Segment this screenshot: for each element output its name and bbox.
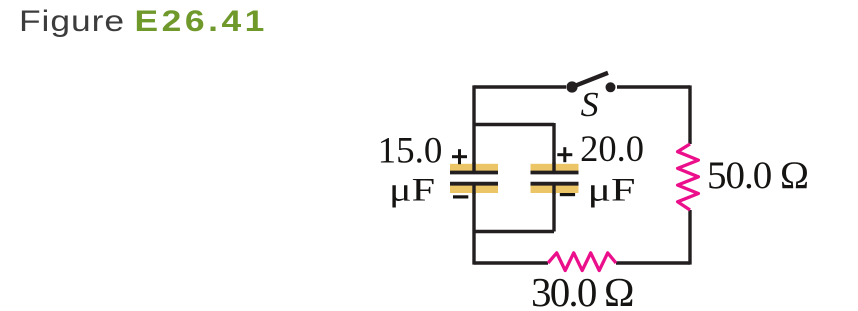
- wire: right side lower segment (outer loop): [688, 210, 691, 265]
- svg-text:30.0 Ω: 30.0 Ω: [531, 269, 633, 311]
- capacitor C1 plus sign: [452, 149, 467, 164]
- svg-text:S: S: [581, 85, 599, 124]
- capacitor C1 (15.0 uF) plates: [450, 163, 498, 195]
- wire: bottom side right segment (outer loop): [616, 261, 690, 264]
- capacitor C2 minus sign: [560, 193, 575, 196]
- label: 20.0 uF value of C2: [580, 128, 644, 209]
- resistor R1 (50.0 ohm) zigzag: [678, 144, 699, 210]
- svg-text:E26.41: E26.41: [135, 4, 268, 38]
- svg-text:Figure: Figure: [19, 4, 125, 38]
- wire: left side upper segment (outer loop, above C1): [472, 85, 475, 173]
- svg-text:μF: μF: [389, 173, 435, 209]
- wire: top side left segment (outer loop): [474, 85, 566, 88]
- switch S contact dot left: [566, 81, 577, 92]
- capacitor C1 minus sign: [453, 195, 468, 198]
- switch S contact dot right: [606, 82, 616, 92]
- svg-text:50.0 Ω: 50.0 Ω: [707, 154, 808, 197]
- svg-text:20.0: 20.0: [580, 128, 644, 169]
- capacitor C2 (20.0 uF) plates: [531, 163, 579, 195]
- switch S lever arm: [572, 73, 608, 87]
- wire: bottom side left segment (outer loop): [474, 261, 548, 264]
- wire: left side lower segment (outer loop, below C1): [472, 184, 475, 265]
- wire: inner branch top (parallel connection): [474, 123, 554, 126]
- wire: inner branch bottom (parallel connection): [474, 230, 554, 233]
- wire: right side upper segment (outer loop): [688, 85, 691, 144]
- label: 15.0 uF value of C1: [378, 131, 443, 209]
- svg-text:μF: μF: [588, 173, 636, 209]
- svg-text:15.0: 15.0: [378, 131, 443, 172]
- capacitor C2 plus sign: [557, 147, 572, 162]
- figure title "Figure E26.41": [19, 4, 268, 38]
- resistor R2 (30.0 ohm) zigzag: [548, 253, 616, 271]
- wire: inner branch right lower (below C2): [552, 184, 555, 232]
- wire: top side right segment (outer loop): [617, 85, 690, 88]
- wire: inner branch right upper (above C2): [552, 123, 555, 173]
